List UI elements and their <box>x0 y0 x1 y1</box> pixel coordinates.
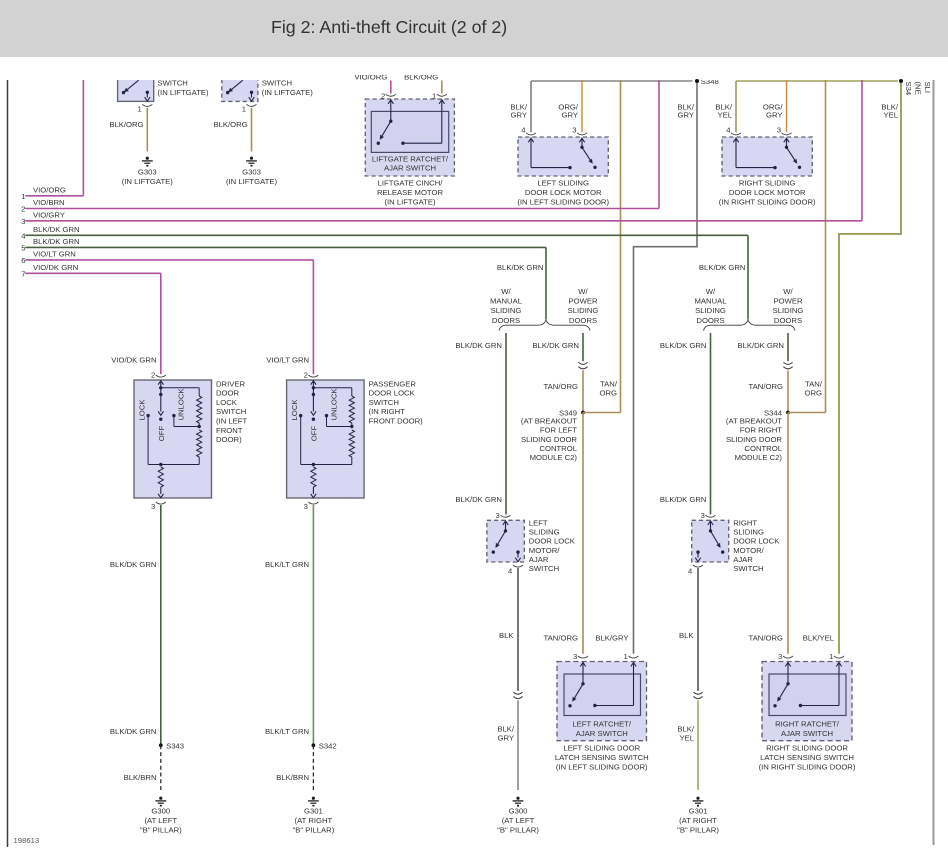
pin contact and exit arrow <box>250 91 253 94</box>
wire BLK/DK GRN long drop <box>160 505 162 745</box>
svg-text:VIO/LT GRN: VIO/LT GRN <box>33 250 76 259</box>
wiper pivot dot <box>312 393 315 396</box>
header bar <box>0 0 948 57</box>
wire TAN/ORG below connector <box>787 371 789 413</box>
svg-text:DOORS: DOORS <box>569 316 597 325</box>
node S344 dot <box>786 411 790 415</box>
ratchet arm <box>780 684 788 698</box>
ajar switch arm <box>498 531 506 544</box>
wire BLK/GRY to ground <box>517 700 519 790</box>
rail junction dot <box>159 463 162 466</box>
svg-text:VIO/BRN: VIO/BRN <box>33 198 65 207</box>
svg-text:4: 4 <box>688 567 693 576</box>
wire VIO/ORG stub to cinch pin 2 <box>390 81 392 94</box>
pin 3 entry arrow <box>503 521 508 525</box>
svg-text:3: 3 <box>777 126 781 135</box>
pin 3 entry arrow <box>708 521 713 525</box>
ground G300 <box>516 797 519 800</box>
pin 4 entry arrow <box>733 138 738 142</box>
wire BLK/GRY from S348 down with jog <box>634 83 698 654</box>
pin 3 connector arc <box>501 515 511 517</box>
node S343 dot <box>159 743 163 747</box>
wire VIO/DK GRN (stub 7) <box>25 272 161 274</box>
svg-text:POWER: POWER <box>773 297 802 306</box>
pin 4 connector arc <box>693 565 703 567</box>
svg-text:LATCH SENSING SWITCH: LATCH SENSING SWITCH <box>760 753 854 762</box>
chain branch wire <box>161 387 199 389</box>
svg-text:TAN/: TAN/ <box>600 380 618 389</box>
svg-text:DOORS: DOORS <box>696 316 724 325</box>
svg-text:(AT BREAKOUT: (AT BREAKOUT <box>726 416 782 425</box>
svg-text:DOOR LOCK MOTOR: DOOR LOCK MOTOR <box>729 188 806 197</box>
svg-text:5: 5 <box>21 244 25 253</box>
ratchet arm <box>575 684 583 698</box>
door lock motor box (dashed) <box>722 137 812 176</box>
RIGHT RATCHET inner box <box>769 674 846 716</box>
exit wire and arrow <box>160 487 162 494</box>
svg-text:AJAR SWITCH: AJAR SWITCH <box>576 729 628 738</box>
svg-text:MODULE C2): MODULE C2) <box>530 453 578 462</box>
wire VIO/LT GRN (stub 6) <box>25 259 313 261</box>
svg-text:LOCK: LOCK <box>138 399 147 421</box>
split brace symbol <box>704 320 796 330</box>
svg-text:BLK/ORG: BLK/ORG <box>404 73 438 82</box>
svg-text:DOORS: DOORS <box>492 316 520 325</box>
svg-text:LEFT SLIDING DOOR: LEFT SLIDING DOOR <box>563 743 640 752</box>
resistor R3 <box>311 467 316 487</box>
pin 4 entry arrow <box>528 138 533 142</box>
wire BLK/ORG to ground <box>146 108 148 152</box>
pin 3 connector arc <box>782 133 792 135</box>
svg-text:"B" PILLAR): "B" PILLAR) <box>140 825 182 834</box>
svg-text:BLK/GRY: BLK/GRY <box>595 634 628 643</box>
ground G301 <box>696 797 699 800</box>
exit wire and arrow <box>312 487 314 494</box>
door lock switch box <box>287 380 365 498</box>
door lock motor/ajar switch box (dashed) <box>692 520 729 562</box>
svg-text:RIGHT SLIDING DOOR: RIGHT SLIDING DOOR <box>766 743 848 752</box>
LOCK contact dot <box>299 414 302 417</box>
svg-text:BLK/ORG: BLK/ORG <box>109 120 143 129</box>
svg-text:YEL: YEL <box>883 111 898 120</box>
svg-text:G301: G301 <box>689 806 708 815</box>
right node dot <box>899 79 903 83</box>
svg-text:GRY: GRY <box>561 111 578 120</box>
svg-text:RIGHT SLIDING: RIGHT SLIDING <box>739 179 796 188</box>
svg-text:W/: W/ <box>783 287 793 296</box>
svg-text:(IN LIFTGATE): (IN LIFTGATE) <box>158 88 210 97</box>
svg-text:SWITCH: SWITCH <box>529 564 559 573</box>
svg-text:GRY: GRY <box>766 111 783 120</box>
svg-text:2: 2 <box>304 371 308 380</box>
wire BLK/YEL to ground <box>697 700 699 790</box>
manual branch wire BLK/DK GRN <box>505 333 507 515</box>
ground G300 <box>159 797 162 800</box>
node link to long tan wire <box>788 412 826 414</box>
svg-text:BLK/DK GRN: BLK/DK GRN <box>497 263 544 272</box>
svg-text:(AT RIGHT: (AT RIGHT <box>679 816 717 825</box>
svg-text:BLK/DK GRN: BLK/DK GRN <box>455 495 502 504</box>
svg-text:7: 7 <box>21 270 25 279</box>
chain junction dot <box>350 425 353 428</box>
svg-text:SWITCH: SWITCH <box>369 398 399 407</box>
chain wire to rail <box>351 457 353 465</box>
svg-text:AJAR SWITCH: AJAR SWITCH <box>384 164 436 173</box>
pin 3 entry arrow <box>579 138 584 142</box>
inline connector <box>578 362 587 364</box>
svg-text:TAN/ORG: TAN/ORG <box>749 634 783 643</box>
svg-text:CONTROL: CONTROL <box>744 444 782 453</box>
svg-text:SLIDING: SLIDING <box>733 528 764 537</box>
svg-text:SWITCH: SWITCH <box>216 407 246 416</box>
wire BLK/LT GRN long drop <box>312 505 314 745</box>
svg-text:(IN LEFT SLIDING DOOR): (IN LEFT SLIDING DOOR) <box>517 197 609 206</box>
pin 3 connector arc <box>706 515 716 517</box>
junction dot to resistor chain <box>312 386 315 389</box>
LOCK contact dot <box>146 414 149 417</box>
svg-text:RIGHT RATCHET/: RIGHT RATCHET/ <box>775 720 840 729</box>
node S342 dot <box>312 743 316 747</box>
node S348 dot <box>695 79 699 83</box>
ground G301 <box>312 797 315 800</box>
svg-text:4: 4 <box>521 126 526 135</box>
wire VIO/ORG vertical <box>82 80 84 196</box>
wire ORG/GRY drop to pin 3 <box>786 80 788 132</box>
cinch pin 1 connector arc <box>437 94 447 96</box>
pin 1 connector arc <box>142 104 152 106</box>
LEFT RATCHET inner box <box>564 674 641 716</box>
svg-text:(IN LIFTGATE): (IN LIFTGATE) <box>384 198 436 207</box>
svg-text:BLK/DK GRN: BLK/DK GRN <box>33 237 80 246</box>
svg-text:OFF: OFF <box>309 426 318 442</box>
motor switch arm <box>582 147 590 160</box>
svg-text:(IN LEFT SLIDING DOOR): (IN LEFT SLIDING DOOR) <box>556 762 648 771</box>
svg-text:BLK/DK GRN: BLK/DK GRN <box>110 727 157 736</box>
pin 1 connector arc <box>629 656 639 658</box>
svg-text:TAN/ORG: TAN/ORG <box>544 634 578 643</box>
wire TAN/ORG down to ratchet <box>787 413 789 654</box>
svg-text:3: 3 <box>496 511 500 520</box>
svg-text:S342: S342 <box>319 741 337 750</box>
UNLOCK contact dot <box>325 414 328 417</box>
svg-text:SLIDING: SLIDING <box>491 306 522 315</box>
wire BLK/YEL path down right side <box>839 83 901 654</box>
power branch wire BLK/DK GRN <box>582 333 584 361</box>
svg-text:BLK/DK GRN: BLK/DK GRN <box>660 341 707 350</box>
svg-text:BLK/LT GRN: BLK/LT GRN <box>265 727 309 736</box>
svg-text:BLK/BRN: BLK/BRN <box>276 773 309 782</box>
liftgate switch box (dashed) <box>222 77 258 102</box>
wire BLK/ORG stub to cinch pin 1 <box>441 81 443 94</box>
svg-text:SWITCH: SWITCH <box>262 79 292 88</box>
svg-text:3: 3 <box>573 652 577 661</box>
wire BLK/DK GRN (stub 4) <box>25 234 748 236</box>
border frame right <box>933 80 935 845</box>
svg-text:SLIDING DOOR: SLIDING DOOR <box>726 435 782 444</box>
pin 4 connector arc <box>526 133 536 135</box>
svg-text:W/: W/ <box>706 287 716 296</box>
pin 1 connector arc <box>247 104 257 106</box>
svg-text:3: 3 <box>701 511 705 520</box>
svg-text:W/: W/ <box>578 287 588 296</box>
pin 3 entry arrow <box>580 663 585 667</box>
svg-text:S348: S348 <box>701 77 719 86</box>
UNLOCK contact dot <box>172 414 175 417</box>
svg-text:DOOR LOCK: DOOR LOCK <box>733 537 780 546</box>
svg-text:GRY: GRY <box>677 111 694 120</box>
ratchet switch pivot dot <box>389 120 392 123</box>
svg-text:1: 1 <box>242 105 246 114</box>
svg-text:PASSENGER: PASSENGER <box>369 379 417 388</box>
chain wire to rail <box>198 457 200 465</box>
wiper pivot dot <box>159 393 162 396</box>
split brace symbol <box>499 320 590 330</box>
pin 4 contact dot and exit arrow <box>516 550 519 553</box>
svg-text:GRY: GRY <box>510 111 527 120</box>
svg-text:G301: G301 <box>304 806 323 815</box>
pin 1 contact line and dot <box>403 142 442 144</box>
chain wire <box>351 423 353 427</box>
node S349 dot <box>581 411 585 415</box>
pin 3 entry arrow <box>785 663 790 667</box>
svg-text:VIO/DK GRN: VIO/DK GRN <box>33 263 78 272</box>
svg-text:1: 1 <box>21 192 25 201</box>
svg-text:4: 4 <box>726 126 731 135</box>
wire BLK from pin 4 <box>517 568 519 691</box>
pin 2 entry arrow and wire <box>388 100 393 104</box>
svg-text:DOOR LOCK: DOOR LOCK <box>529 537 576 546</box>
svg-text:AJAR SWITCH: AJAR SWITCH <box>781 729 833 738</box>
pin 3 connector arc <box>577 133 587 135</box>
svg-text:VIO/ORG: VIO/ORG <box>354 73 387 82</box>
svg-text:SLI: SLI <box>923 82 932 94</box>
svg-text:FOR LEFT: FOR LEFT <box>540 426 577 435</box>
svg-text:BLK/LT GRN: BLK/LT GRN <box>265 560 309 569</box>
svg-text:1: 1 <box>829 652 833 661</box>
svg-text:2: 2 <box>151 371 155 380</box>
svg-text:198613: 198613 <box>14 836 40 845</box>
motor switch pivot dot <box>785 146 788 149</box>
svg-text:SLIDING DOOR: SLIDING DOOR <box>521 435 577 444</box>
svg-text:G300: G300 <box>151 806 170 815</box>
liftgate ratchet/ajar switch inner box <box>371 111 448 152</box>
wire BLK/DK GRN (stub 5) <box>25 246 546 248</box>
svg-text:G303: G303 <box>138 168 157 177</box>
svg-text:(IN LEFT: (IN LEFT <box>216 417 247 426</box>
resistor R2 <box>349 430 354 457</box>
svg-text:BLK/DK GRN: BLK/DK GRN <box>737 341 784 350</box>
wire BLK/BRN dashed to ground <box>312 745 314 790</box>
chain junction dot <box>198 425 201 428</box>
bottom rail <box>301 464 352 466</box>
manual branch wire BLK/DK GRN <box>710 333 712 515</box>
svg-text:LATCH SENSING SWITCH: LATCH SENSING SWITCH <box>555 753 649 762</box>
svg-text:"B" PILLAR): "B" PILLAR) <box>677 825 719 834</box>
border frame left <box>7 80 9 847</box>
svg-text:1: 1 <box>138 105 142 114</box>
ratchet pivot dot <box>786 682 789 685</box>
svg-text:SLIDING: SLIDING <box>529 528 560 537</box>
pin 3 connector arc <box>783 656 793 658</box>
wire BLK/GRY drop to pin 4 <box>530 81 532 132</box>
pin 3 connector arc <box>578 656 588 658</box>
wire VIO/GRY vertical <box>861 80 863 221</box>
wire VIO/ORG (stub 1) <box>25 195 83 197</box>
svg-text:BLK/DK GRN: BLK/DK GRN <box>699 263 746 272</box>
pin 1 contact line and dot <box>800 705 839 707</box>
svg-text:DOOR LOCK MOTOR: DOOR LOCK MOTOR <box>525 188 602 197</box>
UNLOCK contact wire <box>326 416 328 427</box>
wire VIO/DK GRN vertical to driver switch <box>160 273 162 374</box>
svg-text:GRY: GRY <box>497 734 514 743</box>
svg-text:3: 3 <box>304 502 308 511</box>
svg-text:TAN/ORG: TAN/ORG <box>749 382 783 391</box>
svg-text:MOTOR/: MOTOR/ <box>529 546 560 555</box>
pin 2 connector arc <box>308 375 318 377</box>
svg-text:UNLOCK: UNLOCK <box>329 388 338 421</box>
wire VIO/GRY (stub 3) <box>25 220 862 222</box>
svg-text:VIO/DK GRN: VIO/DK GRN <box>111 356 156 365</box>
svg-text:FOR RIGHT: FOR RIGHT <box>740 426 783 435</box>
switch arm <box>127 80 138 89</box>
ground G303 <box>250 157 253 160</box>
pin 4 motor contact <box>531 167 570 169</box>
svg-text:TAN/: TAN/ <box>805 380 823 389</box>
svg-text:(IN RIGHT SLIDING DOOR): (IN RIGHT SLIDING DOOR) <box>759 762 856 771</box>
chain wire <box>198 423 200 427</box>
svg-text:BLK/: BLK/ <box>677 725 695 734</box>
pin 1 entry arrow <box>631 663 636 667</box>
ratchet switch arm <box>382 121 391 136</box>
OFF contact dot <box>159 418 162 421</box>
svg-text:6: 6 <box>21 256 25 265</box>
svg-text:4: 4 <box>21 232 26 241</box>
svg-text:YEL: YEL <box>717 111 732 120</box>
inline connector <box>513 692 522 694</box>
svg-text:LEFT: LEFT <box>529 519 548 528</box>
svg-text:FRONT: FRONT <box>216 426 243 435</box>
svg-text:VIO/LT GRN: VIO/LT GRN <box>266 356 309 365</box>
svg-text:2: 2 <box>21 205 25 214</box>
svg-text:FRONT DOOR): FRONT DOOR) <box>369 417 424 426</box>
pin 1 entry arrow and wire <box>439 100 444 104</box>
inline connector <box>693 692 702 694</box>
wiper arm with arrowhead <box>312 395 314 412</box>
pin 3 entry arrow <box>784 138 789 142</box>
svg-text:(AT BREAKOUT: (AT BREAKOUT <box>521 416 577 425</box>
wire TAN/ORG down to ratchet <box>582 413 584 654</box>
svg-text:BLK/YEL: BLK/YEL <box>803 634 835 643</box>
svg-text:(AT LEFT: (AT LEFT <box>502 816 535 825</box>
switch arm <box>232 80 243 89</box>
pin 2 connector arc <box>156 375 166 377</box>
resistor R2 <box>197 430 202 457</box>
motor switch pivot dot <box>580 146 583 149</box>
wire VIO/BRN vertical <box>658 80 660 209</box>
svg-text:BLK/DK GRN: BLK/DK GRN <box>110 560 157 569</box>
pin 1 contact line and dot <box>595 705 634 707</box>
pin 1 connector arc <box>834 656 844 658</box>
pin 4 contact dot and exit arrow <box>696 550 699 553</box>
wire BLK/DK GRN vertical into left split <box>545 247 547 319</box>
svg-text:BLK/: BLK/ <box>497 725 515 734</box>
svg-text:AJAR: AJAR <box>733 555 753 564</box>
svg-text:SLIDING: SLIDING <box>568 306 599 315</box>
pin 4 connector arc <box>513 565 523 567</box>
svg-text:ORG: ORG <box>599 389 617 398</box>
svg-text:ORG: ORG <box>804 389 822 398</box>
svg-text:CONTROL: CONTROL <box>539 444 577 453</box>
svg-text:(AT LEFT: (AT LEFT <box>144 816 177 825</box>
svg-text:BLK/DK GRN: BLK/DK GRN <box>33 225 80 234</box>
svg-text:(IN RIGHT SLIDING DOOR): (IN RIGHT SLIDING DOOR) <box>719 197 816 206</box>
power branch wire BLK/DK GRN <box>787 333 789 361</box>
svg-text:(IN LIFTGATE): (IN LIFTGATE) <box>226 177 278 186</box>
LEFT RATCHET outer box (dashed) <box>557 662 647 741</box>
LOCK contact wire <box>147 416 149 465</box>
inline connector <box>783 362 792 364</box>
svg-text:SLIDING: SLIDING <box>695 306 726 315</box>
svg-text:3: 3 <box>572 126 576 135</box>
rail junction dot <box>312 463 315 466</box>
pin 2 entry arrow <box>158 381 163 385</box>
pin 2 entry arrow <box>311 381 316 385</box>
svg-text:YEL: YEL <box>679 734 694 743</box>
svg-text:BLK/ORG: BLK/ORG <box>214 120 248 129</box>
svg-text:MANUAL: MANUAL <box>694 297 727 306</box>
svg-text:4: 4 <box>508 567 513 576</box>
svg-text:VIO/GRY: VIO/GRY <box>33 210 65 219</box>
wire TAN/ORG long vertical (right) <box>825 80 827 413</box>
svg-text:BLK/BRN: BLK/BRN <box>124 773 157 782</box>
svg-text:G303: G303 <box>242 168 261 177</box>
svg-text:BLK/DK GRN: BLK/DK GRN <box>455 341 502 350</box>
svg-text:SWITCH: SWITCH <box>158 79 188 88</box>
svg-text:(NE: (NE <box>914 82 923 95</box>
wire BLK/ORG to ground <box>251 108 253 152</box>
bottom rail <box>148 464 199 466</box>
resistor R1 <box>197 396 202 423</box>
svg-text:BLK: BLK <box>499 631 514 640</box>
svg-text:"B" PILLAR): "B" PILLAR) <box>293 825 335 834</box>
pin 3 connector arc <box>308 502 318 504</box>
svg-text:(AT RIGHT: (AT RIGHT <box>295 816 333 825</box>
resistor R1 <box>349 396 354 423</box>
svg-text:LEFT RATCHET/: LEFT RATCHET/ <box>572 720 632 729</box>
pin 3 connector arc <box>156 502 166 504</box>
wire VIO/BRN (stub 2) <box>25 208 659 210</box>
svg-text:POWER: POWER <box>568 297 597 306</box>
OFF contact dot <box>312 418 315 421</box>
pin 1 entry arrow <box>836 663 841 667</box>
ajar switch pivot dot <box>709 529 712 532</box>
svg-text:S343: S343 <box>166 741 184 750</box>
svg-text:LIFTGATE RATCHET/: LIFTGATE RATCHET/ <box>372 155 449 164</box>
wire TAN/ORG below connector <box>582 371 584 413</box>
wire VIO/LT GRN vertical to passenger switch <box>312 260 314 374</box>
svg-text:RELEASE MOTOR: RELEASE MOTOR <box>377 188 444 197</box>
wire BLK from pin 4 <box>697 568 699 691</box>
door lock motor box (dashed) <box>518 137 608 176</box>
svg-text:3: 3 <box>151 502 155 511</box>
svg-text:LEFT SLIDING: LEFT SLIDING <box>537 179 589 188</box>
svg-text:BLK/DK GRN: BLK/DK GRN <box>532 341 579 350</box>
RIGHT RATCHET outer box (dashed) <box>762 662 852 741</box>
liftgate switch box <box>118 77 154 102</box>
svg-text:LOCK: LOCK <box>216 398 238 407</box>
svg-text:3: 3 <box>778 652 782 661</box>
svg-text:MOTOR/: MOTOR/ <box>733 546 764 555</box>
